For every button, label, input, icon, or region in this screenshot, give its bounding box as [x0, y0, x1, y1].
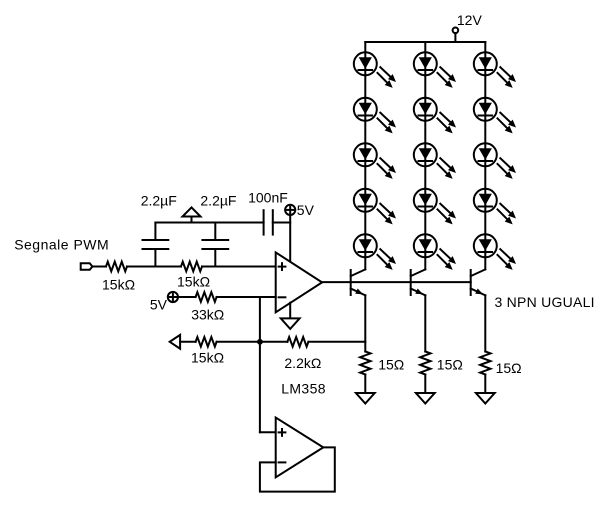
- terminal 12V: [453, 28, 459, 34]
- svg-text:15Ω: 15Ω: [378, 356, 404, 372]
- ground under R7: [476, 393, 495, 404]
- wire LED column 1: [364, 42, 366, 269]
- minus sign U1B: [279, 461, 286, 463]
- wire R1 to R2: [127, 266, 181, 268]
- LED D12: [474, 98, 516, 134]
- power 5V top: [285, 205, 295, 215]
- LED D13: [474, 143, 516, 179]
- svg-text:LM358: LM358: [281, 381, 326, 397]
- wire C3 to V+ node: [273, 222, 290, 224]
- svg-text:15kΩ: 15kΩ: [102, 277, 135, 293]
- svg-text:2.2µF: 2.2µF: [200, 193, 236, 209]
- wire cap C2 lower lead: [214, 251, 216, 267]
- wire 5V to R3: [178, 296, 196, 298]
- wire V- to ground: [289, 303, 291, 319]
- offpage arrow up: [183, 207, 201, 222]
- plus sign U1B: [279, 429, 286, 436]
- minus sign U1A: [279, 296, 286, 298]
- wire R2 to op-amp + input: [202, 266, 276, 268]
- LED D4: [354, 189, 396, 225]
- resistor 15k R1: [106, 262, 127, 272]
- wire cap C2 upper lead: [214, 223, 216, 240]
- wire cap C1 upper lead: [154, 223, 156, 240]
- wire LED column 2: [424, 42, 426, 269]
- wire R7 to ground: [484, 375, 486, 394]
- LED D10: [414, 234, 456, 270]
- LED D8: [414, 143, 456, 179]
- svg-text:15kΩ: 15kΩ: [191, 350, 224, 366]
- junction node: [257, 339, 263, 345]
- svg-text:3 NPN UGUALI: 3 NPN UGUALI: [495, 294, 595, 310]
- resistor 15 ohm R7: [480, 352, 490, 375]
- svg-text:Segnale PWM: Segnale PWM: [14, 237, 109, 253]
- resistor 15 ohm R6: [420, 352, 430, 375]
- ground under R5: [356, 393, 375, 404]
- resistor 15 ohm R5: [360, 352, 370, 375]
- wire cap C1 lower lead: [154, 251, 156, 267]
- wire emitter Q1: [364, 295, 366, 351]
- capacitor C2 2.2uF: [202, 240, 228, 249]
- wire R4 to junction: [217, 341, 288, 343]
- transistor Q2: [411, 269, 426, 295]
- LED D9: [414, 189, 456, 225]
- LED D3: [354, 143, 396, 179]
- wire R8 to Q1 emitter: [308, 341, 365, 343]
- resistor 15k R2: [181, 262, 202, 272]
- LED D1: [354, 52, 396, 88]
- svg-text:12V: 12V: [457, 12, 483, 28]
- wire top rail: [155, 222, 263, 224]
- ground op-amp: [281, 318, 300, 329]
- wire emitter Q2: [424, 295, 426, 351]
- LED D5: [354, 234, 396, 270]
- offpage arrow left: [170, 335, 180, 349]
- transistor Q1: [351, 269, 366, 295]
- wire inverting node vertical: [259, 297, 261, 432]
- wire base rail: [322, 281, 471, 283]
- LED D6: [414, 52, 456, 88]
- ground under R6: [416, 393, 435, 404]
- capacitor C1 2.2uF: [143, 240, 169, 249]
- connector input tag: [81, 263, 93, 270]
- LED D15: [474, 234, 516, 270]
- wire emitter Q3: [484, 295, 486, 351]
- wire R5 to ground: [364, 375, 366, 394]
- wire V+ supply to op-amp: [289, 215, 291, 262]
- wire 12V stem: [454, 33, 456, 42]
- power 5V bias: [168, 292, 178, 302]
- wire R3 to op-amp - input: [217, 296, 276, 298]
- wire U1B feedback loop: [260, 447, 335, 491]
- wire R6 to ground: [424, 375, 426, 394]
- op-amp U1A LM358: [276, 252, 322, 312]
- LED D2: [354, 98, 396, 134]
- transistor Q3: [471, 269, 486, 295]
- LED D7: [414, 98, 456, 134]
- plus sign U1A: [279, 263, 286, 270]
- wire 12V rail: [365, 41, 485, 43]
- LED D14: [474, 189, 516, 225]
- wire arrow to R4: [180, 341, 196, 343]
- svg-text:2.2µF: 2.2µF: [141, 193, 177, 209]
- svg-text:100nF: 100nF: [248, 190, 288, 206]
- op-amp U1B LM358: [276, 418, 324, 478]
- svg-text:5V: 5V: [150, 297, 168, 313]
- svg-text:2.2kΩ: 2.2kΩ: [284, 355, 321, 371]
- resistor 2.2k R8: [287, 337, 308, 347]
- svg-text:5V: 5V: [297, 202, 315, 218]
- svg-text:15Ω: 15Ω: [496, 360, 522, 376]
- svg-text:33kΩ: 33kΩ: [191, 306, 224, 322]
- svg-text:15Ω: 15Ω: [437, 356, 463, 372]
- wire op-amp U1B + input: [260, 431, 276, 433]
- resistor 15k R4: [196, 337, 217, 347]
- LED D11: [474, 52, 516, 88]
- resistor 33k R3: [196, 292, 217, 302]
- wire input to R1: [92, 266, 106, 268]
- capacitor C3 100nF: [264, 210, 273, 234]
- svg-text:15kΩ: 15kΩ: [177, 274, 210, 290]
- wire LED column 3: [484, 42, 486, 269]
